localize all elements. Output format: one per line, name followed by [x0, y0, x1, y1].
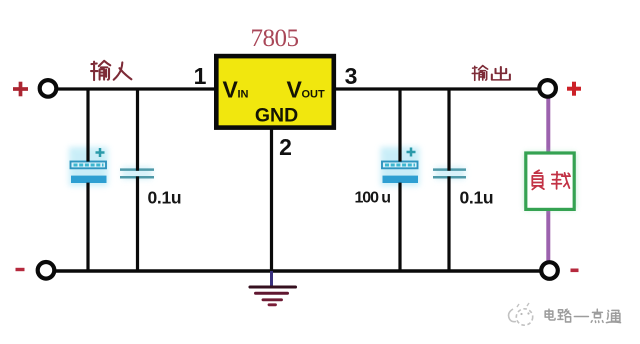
logo icon: [509, 303, 533, 325]
wire C4 branch upper: [447, 88, 450, 171]
svg-text:100 u: 100 u: [355, 190, 391, 207]
svg-text:V: V: [287, 77, 303, 103]
load RL box: [526, 153, 574, 209]
label output 输出: [472, 66, 510, 81]
wire top output rail: [334, 87, 539, 90]
wire C1 branch lower: [86, 183, 89, 272]
svg-text:V: V: [223, 77, 239, 103]
capacitor C4 ceramic glow: [435, 167, 465, 180]
capacitor C3 electrolytic 100u: [382, 148, 418, 184]
wire output load purple upper: [546, 98, 550, 153]
svg-text:OUT: OUT: [302, 89, 326, 101]
ground symbol: [250, 287, 296, 305]
wire output load purple lower: [546, 210, 550, 261]
ground stem: [270, 271, 273, 287]
wire top input rail: [57, 87, 216, 90]
output terminal + circle: [539, 80, 556, 97]
pin label VOUT: [287, 77, 326, 103]
wire C3 branch lower: [398, 183, 401, 272]
svg-text:IN: IN: [238, 89, 249, 101]
svg-text:3: 3: [345, 63, 358, 89]
svg-text:2: 2: [279, 134, 292, 160]
wire C3 branch upper: [398, 88, 401, 162]
minus symbol input: [16, 268, 25, 271]
capacitor C1 electrolytic glow: [69, 147, 108, 186]
minus symbol output: [571, 268, 579, 272]
wire C2 branch upper: [136, 88, 139, 171]
pin label VIN: [223, 77, 249, 103]
load box glow: [528, 156, 572, 206]
label load 负载: [532, 170, 570, 189]
svg-text:1: 1: [194, 63, 207, 89]
label input 输入: [91, 61, 131, 80]
wire bottom ground rail: [55, 269, 541, 272]
capacitor C2 ceramic 0.1u: [120, 170, 154, 178]
input terminal + circle: [40, 80, 57, 97]
wire C2 branch lower: [136, 176, 139, 272]
svg-text:0.1u: 0.1u: [460, 188, 494, 208]
plus symbol input: [13, 82, 28, 97]
logo text 电路一点通: [545, 309, 620, 322]
capacitor C3 electrolytic glow: [381, 147, 420, 186]
wire C4 branch lower: [447, 176, 450, 272]
plus symbol output: [567, 82, 581, 96]
regulator U1 7805 body: [216, 56, 333, 128]
capacitor C1 electrolytic: [71, 148, 107, 183]
input terminal - circle: [38, 262, 55, 279]
svg-text:7805: 7805: [251, 25, 299, 52]
wire GND pin 2 vertical: [270, 128, 273, 271]
svg-text:0.1u: 0.1u: [148, 188, 182, 208]
svg-text:GND: GND: [255, 105, 298, 127]
output terminal - circle: [541, 262, 558, 279]
capacitor C4 ceramic 0.1u: [433, 170, 466, 178]
capacitor C2 ceramic glow: [122, 167, 152, 180]
wire C1 branch upper: [86, 88, 89, 162]
